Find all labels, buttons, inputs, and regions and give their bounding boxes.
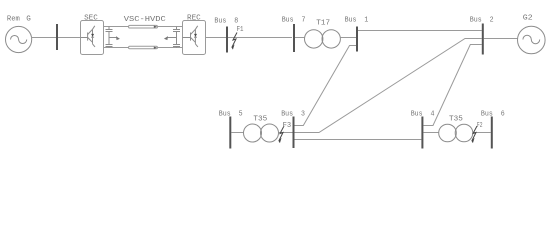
svg-text:T35: T35 bbox=[449, 115, 463, 123]
svg-text:Rem: Rem bbox=[7, 16, 20, 24]
svg-text:F1: F1 bbox=[237, 26, 244, 34]
svg-text:Bus 8: Bus 8 bbox=[214, 18, 238, 26]
svg-text:REC: REC bbox=[187, 15, 201, 23]
svg-text:T35: T35 bbox=[253, 115, 267, 123]
svg-text:Bus 1: Bus 1 bbox=[345, 16, 369, 24]
svg-text:Bus 7: Bus 7 bbox=[282, 16, 306, 24]
svg-text:G2: G2 bbox=[523, 15, 533, 23]
svg-text:F3: F3 bbox=[283, 122, 292, 130]
svg-text:G: G bbox=[26, 16, 31, 24]
svg-text:Bus 2: Bus 2 bbox=[470, 16, 494, 24]
svg-text:Bus 6: Bus 6 bbox=[481, 111, 505, 119]
svg-text:VSC-HVDC: VSC-HVDC bbox=[124, 16, 166, 24]
svg-text:Bus 5: Bus 5 bbox=[219, 111, 243, 119]
svg-text:T17: T17 bbox=[316, 20, 330, 28]
svg-text:F2: F2 bbox=[477, 122, 483, 130]
svg-text:SEC: SEC bbox=[84, 15, 98, 23]
svg-text:Bus 4: Bus 4 bbox=[411, 111, 435, 119]
svg-text:Bus 3: Bus 3 bbox=[281, 111, 305, 119]
